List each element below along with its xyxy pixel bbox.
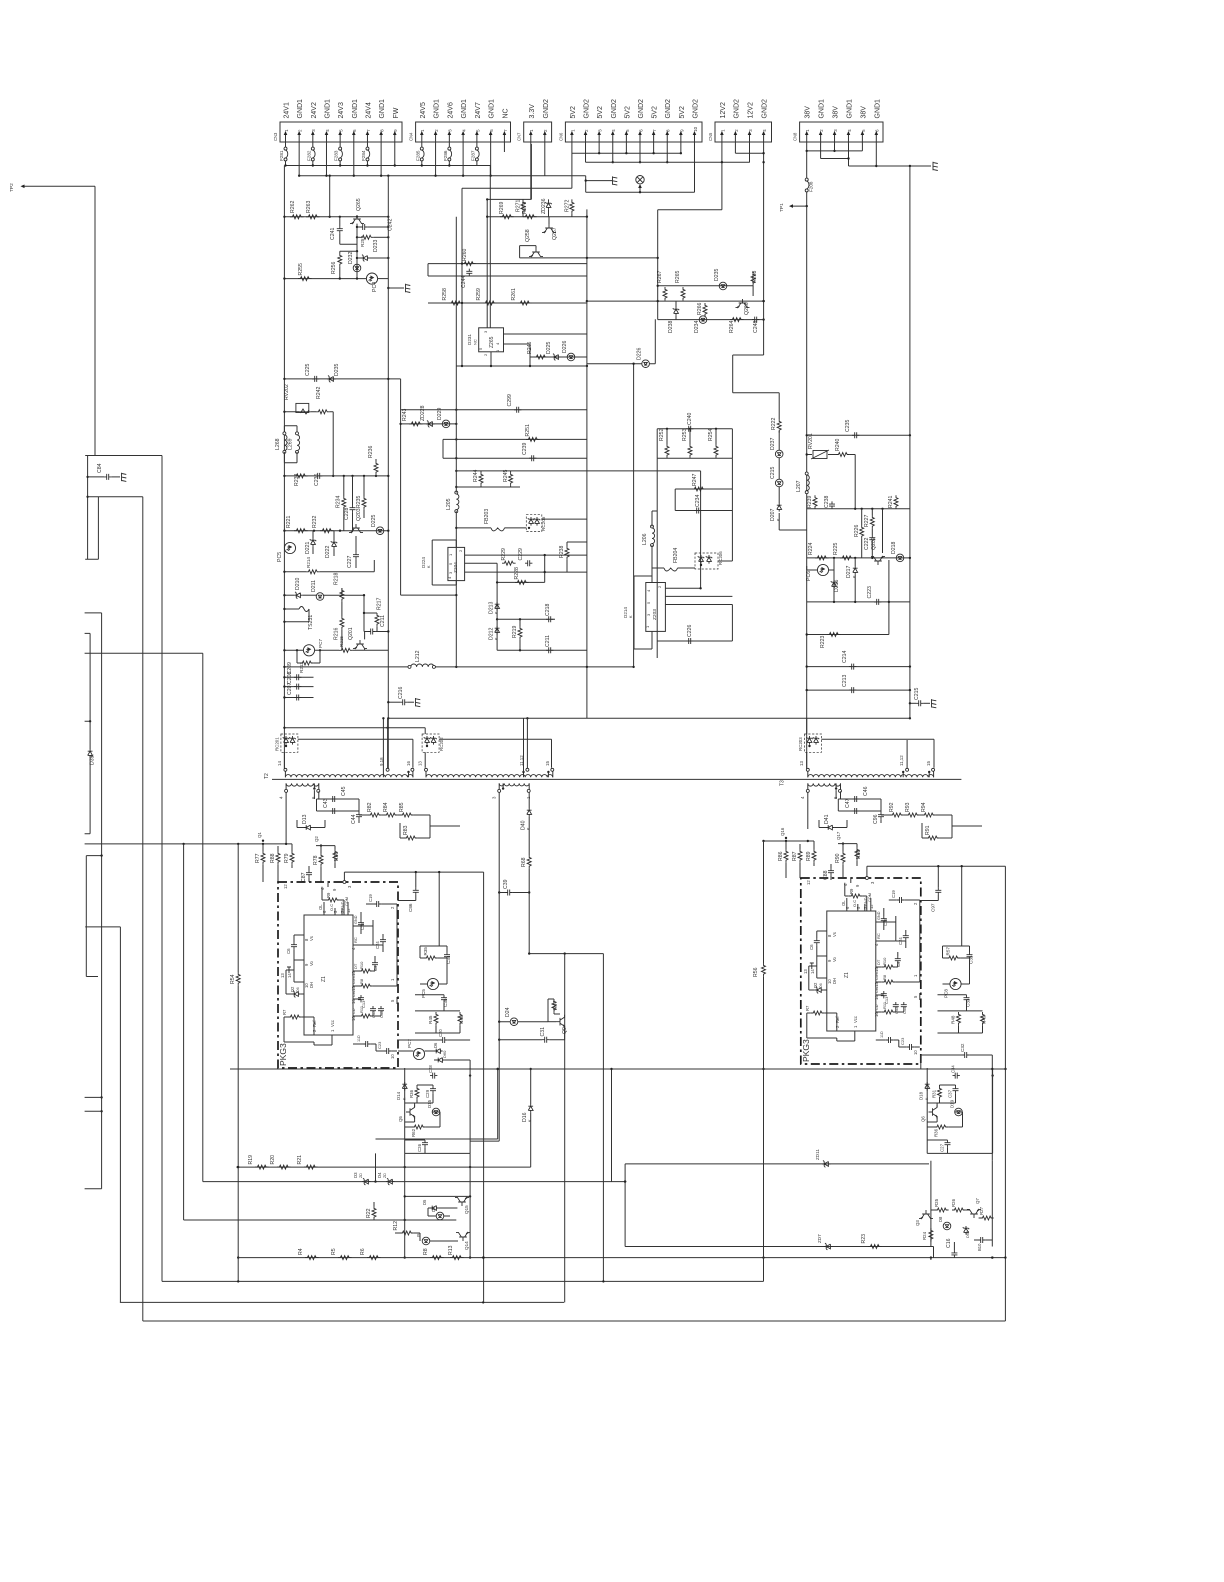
resistor R255: [284, 278, 366, 280]
fuse F281: [284, 147, 288, 161]
diode D13: [297, 820, 325, 828]
svg-text:R92: R92: [889, 802, 895, 812]
svg-text:Z204: Z204: [453, 562, 459, 573]
svg-text:L207: L207: [796, 480, 802, 492]
resistor R219: [518, 626, 522, 640]
transistor Q203: [349, 524, 363, 533]
svg-text:9: 9: [679, 129, 684, 132]
wire R233 line: [284, 475, 388, 477]
svg-text:1: 1: [390, 978, 395, 981]
svg-text:R247: R247: [692, 473, 698, 486]
svg-text:1: 1: [913, 974, 918, 977]
ground symbol CN8: [933, 162, 938, 171]
svg-text:D233: D233: [373, 239, 379, 252]
svg-text:R78: R78: [313, 855, 319, 865]
wire Z203 pins: [665, 573, 732, 605]
wire v120 drop: [85, 927, 120, 1303]
svg-text:13: 13: [803, 969, 808, 974]
svg-text:Q14: Q14: [464, 1241, 469, 1250]
svg-text:11D: 11D: [880, 1031, 884, 1038]
resistor R91: [926, 836, 940, 840]
svg-text:4: 4: [325, 129, 330, 132]
svg-text:D238: D238: [668, 320, 674, 333]
svg-text:D225: D225: [371, 514, 377, 527]
snubber RC203: [805, 734, 822, 752]
resistor R240: [836, 453, 850, 457]
photocoupler PC4: [366, 273, 377, 284]
svg-text:GND2: GND2: [584, 99, 591, 119]
svg-text:D18: D18: [919, 1091, 924, 1100]
svg-text:7: 7: [652, 129, 657, 132]
svg-text:PC6: PC6: [806, 571, 812, 581]
svg-text:24V7: 24V7: [475, 102, 482, 118]
resistor R270: [523, 215, 537, 219]
svg-text:D231: D231: [467, 334, 472, 345]
wire v564 drop: [564, 954, 566, 1303]
svg-text:PC4: PC4: [372, 282, 378, 292]
wire Q15 frame: [405, 1153, 470, 1257]
svg-text:2: 2: [657, 585, 662, 588]
svg-text:8: 8: [666, 129, 671, 132]
capacitor C226b: [686, 638, 693, 644]
cluster below PKG3 left: [405, 1075, 470, 1077]
capacitor C31: [499, 1039, 542, 1041]
transformer T2 winding C: [286, 783, 319, 786]
svg-text:D6: D6: [433, 1042, 438, 1048]
resistor R82: [368, 813, 382, 817]
wire Z204 left loop: [432, 540, 456, 585]
svg-text:D59: D59: [965, 1230, 970, 1238]
svg-text:Q203: Q203: [356, 508, 362, 521]
svg-text:10: 10: [913, 1050, 918, 1055]
svg-text:GND1: GND1: [434, 99, 441, 119]
svg-text:C238: C238: [824, 495, 830, 508]
svg-text:1: 1: [805, 129, 810, 132]
svg-text:L206: L206: [642, 533, 648, 545]
wire into PKG3 left: [263, 865, 321, 882]
svg-text:Vs: Vs: [832, 932, 837, 937]
svg-text:R235: R235: [356, 495, 362, 508]
svg-text:R233: R233: [294, 473, 300, 486]
diode D213: [495, 602, 500, 611]
svg-text:ZD228: ZD228: [420, 405, 426, 421]
photocoupler PC7b: [303, 645, 314, 656]
svg-text:C229: C229: [518, 548, 524, 561]
svg-text:GND2: GND2: [665, 99, 672, 119]
svg-text:B10: B10: [977, 1243, 982, 1251]
resistor R4: [305, 1256, 319, 1260]
capacitor C46: [852, 796, 859, 802]
svg-text:R245: R245: [503, 469, 509, 482]
svg-text:D5: D5: [422, 1199, 427, 1205]
snubber RC205: [526, 515, 542, 532]
svg-text:5: 5: [913, 995, 918, 998]
svg-text:Ref: Ref: [312, 1020, 317, 1027]
circled D10: [422, 1237, 430, 1245]
svg-text:2: 2: [390, 906, 395, 909]
svg-text:O.C: O.C: [329, 904, 334, 911]
svg-text:C32: C32: [960, 1043, 965, 1052]
capacitor C87: [306, 870, 312, 877]
svg-text:Vo: Vo: [309, 960, 314, 966]
svg-text:D19: D19: [950, 1099, 955, 1108]
resistor R227: [870, 515, 874, 529]
svg-text:CD: CD: [352, 1008, 356, 1014]
zener D225d: [552, 354, 561, 361]
resistor R93: [906, 813, 920, 817]
zener D221: [310, 538, 316, 547]
wire R244 line: [456, 471, 700, 573]
svg-text:6: 6: [352, 129, 357, 132]
resistor R253: [688, 444, 692, 458]
svg-text:C299: C299: [507, 394, 513, 407]
svg-text:4: 4: [847, 129, 852, 132]
diode D40: [527, 808, 532, 817]
transistor Q14: [456, 1232, 470, 1241]
capacitor C241: [339, 217, 341, 226]
wire CN6 5V2 and GND2 buses: [462, 144, 695, 192]
wire zener line 1181: [203, 1181, 625, 1183]
svg-text:K: K: [853, 575, 857, 578]
resistor R25: [931, 1209, 935, 1211]
svg-text:3: 3: [870, 881, 875, 884]
transformer T2 winding D: [499, 783, 529, 786]
svg-text:COM: COM: [868, 893, 872, 902]
circled D237: [775, 450, 783, 458]
resistor R223: [827, 633, 841, 637]
svg-text:R88: R88: [270, 853, 276, 863]
diode D39: [88, 749, 93, 758]
wire secondary leads R: [808, 790, 841, 829]
diode D61: [434, 1049, 443, 1054]
wire small stub: [930, 1258, 932, 1260]
connector CN5: [715, 122, 772, 142]
wire R4 line: [238, 1257, 1006, 1259]
svg-text:5V2: 5V2: [652, 106, 659, 119]
wire into PKG3 right: [786, 863, 843, 878]
capacitor C215c: [910, 702, 916, 704]
transistor Q7: [967, 1209, 981, 1218]
svg-text:R79: R79: [284, 853, 290, 863]
svg-text:R258: R258: [442, 288, 448, 301]
capacitor C43: [330, 808, 337, 814]
svg-text:Q258: Q258: [525, 229, 531, 242]
varistor RV201: [811, 450, 829, 459]
svg-text:NC: NC: [502, 108, 509, 118]
svg-text:C19: C19: [368, 894, 373, 902]
svg-text:5: 5: [861, 129, 866, 132]
svg-text:DH: DH: [832, 978, 837, 984]
svg-text:Css: Css: [352, 991, 356, 997]
resistor R78: [319, 853, 323, 867]
svg-text:5V2: 5V2: [570, 106, 577, 119]
zener ZD228: [426, 421, 435, 428]
capacitor C214: [849, 664, 856, 670]
capacitor C238: [829, 501, 835, 508]
wire Q1 line: [85, 843, 292, 845]
capacitor C242: [357, 226, 360, 228]
svg-text:6: 6: [311, 796, 316, 799]
svg-text:Css: Css: [875, 987, 879, 993]
svg-text:D41: D41: [824, 814, 830, 824]
wire long 1069 line: [230, 1068, 1006, 1070]
diode D217: [853, 566, 858, 575]
IC block PKG3 left: [278, 882, 398, 1068]
wire right-center buses: [587, 210, 764, 320]
svg-text:5: 5: [339, 129, 344, 132]
resistor R262: [290, 215, 304, 219]
svg-text:12: 12: [283, 884, 288, 889]
svg-text:15: 15: [874, 967, 879, 972]
circled D211: [316, 593, 324, 601]
svg-text:D224: D224: [421, 557, 426, 568]
svg-text:5V2: 5V2: [679, 106, 686, 119]
transistor Q16: [785, 837, 787, 839]
wire right rect: [625, 1164, 933, 1258]
svg-text:T2: T2: [264, 773, 270, 779]
svg-text:6: 6: [638, 129, 643, 132]
wire v992 drop: [921, 1055, 993, 1161]
svg-text:24V5: 24V5: [420, 102, 427, 118]
svg-text:2: 2: [734, 129, 739, 132]
IC Z265: [479, 328, 504, 352]
svg-text:R255: R255: [298, 263, 304, 276]
svg-text:L212: L212: [415, 650, 421, 662]
svg-text:D232: D232: [348, 251, 354, 264]
resistor R214: [284, 571, 306, 573]
photocoupler PC7: [413, 1048, 424, 1059]
svg-text:R87: R87: [792, 851, 798, 861]
svg-text:3: 3: [483, 330, 488, 333]
resistor R90: [841, 851, 845, 865]
svg-text:C211: C211: [545, 635, 551, 647]
svg-text:FB203: FB203: [484, 509, 490, 524]
svg-text:2: 2: [483, 353, 488, 356]
svg-text:6: 6: [489, 129, 494, 132]
resistor R246: [530, 356, 587, 358]
svg-text:D234: D234: [694, 320, 700, 333]
svg-text:R90: R90: [835, 853, 841, 863]
svg-text:Z203: Z203: [652, 609, 658, 620]
resistor R22: [372, 1206, 376, 1220]
svg-text:GND1: GND1: [352, 99, 359, 119]
svg-text:R232: R232: [312, 515, 318, 528]
svg-text:C239: C239: [522, 442, 528, 455]
capacitor C47: [852, 808, 859, 814]
svg-text:C43: C43: [323, 798, 329, 808]
svg-text:Q5: Q5: [398, 1116, 403, 1122]
svg-text:R57: R57: [946, 947, 951, 956]
zener D216: [831, 580, 837, 589]
capacitor C229: [525, 560, 532, 566]
svg-text:R4: R4: [298, 1248, 304, 1255]
capacitor C32: [921, 1054, 993, 1056]
capacitor C240: [686, 426, 693, 432]
svg-text:13: 13: [418, 761, 423, 766]
svg-text:R46: R46: [459, 1015, 464, 1024]
resistor R236: [374, 461, 378, 475]
wire v142 drop: [88, 497, 143, 1321]
svg-text:L269: L269: [288, 438, 294, 450]
svg-text:D214: D214: [623, 607, 628, 618]
svg-text:3.3V: 3.3V: [529, 104, 536, 119]
svg-text:C27: C27: [940, 1143, 945, 1152]
svg-text:R234: R234: [336, 495, 342, 508]
svg-text:4: 4: [495, 342, 500, 345]
svg-text:C46: C46: [863, 786, 869, 796]
resistor R5: [338, 1256, 352, 1260]
wire CN8 38V/GND1: [807, 144, 931, 769]
svg-text:C26: C26: [417, 1143, 422, 1152]
zener ZD4: [386, 1178, 395, 1185]
svg-text:RC205: RC205: [541, 516, 546, 531]
svg-text:R9: R9: [326, 892, 331, 898]
wire v238 drop: [237, 844, 239, 1282]
wire left bracket1: [85, 456, 98, 560]
capacitor C228: [350, 505, 356, 512]
svg-text:12: 12: [869, 904, 874, 909]
resistor R216: [340, 616, 344, 630]
wire left bracket3: [85, 633, 91, 833]
svg-text:1: 1: [853, 1025, 858, 1028]
wire left bracket4: [86, 856, 101, 977]
wire R82 chain: [359, 815, 460, 838]
svg-text:F287: F287: [470, 150, 475, 161]
svg-text:4: 4: [462, 129, 467, 132]
svg-text:R82: R82: [367, 802, 373, 812]
svg-text:C31: C31: [540, 1027, 546, 1037]
wire R92 chain: [881, 815, 982, 838]
svg-text:1: 1: [284, 129, 289, 132]
resistor R224: [815, 556, 829, 560]
svg-text:38V: 38V: [805, 106, 812, 119]
svg-text:C227: C227: [347, 555, 353, 568]
resistor R260: [462, 262, 476, 266]
svg-text:C213: C213: [842, 674, 848, 687]
wire R221 line: [284, 530, 388, 532]
capacitor C96: [878, 812, 884, 819]
svg-text:R257: R257: [360, 236, 365, 247]
zener D222: [331, 540, 337, 549]
svg-text:R246: R246: [527, 341, 533, 354]
wire v611 drop: [611, 1069, 613, 1182]
svg-text:R7: R7: [805, 1005, 810, 1011]
cluster left of PKG3-left side parts: [398, 895, 416, 901]
transformer T2 winding B: [426, 775, 553, 778]
ferrite FB203: [491, 528, 505, 531]
varistor RV202: [296, 403, 309, 412]
wire C235 line: [807, 434, 910, 436]
svg-text:R218: R218: [334, 572, 340, 585]
resistor R265: [681, 287, 685, 301]
capacitor C235: [852, 432, 859, 438]
svg-text:PC5: PC5: [277, 552, 283, 562]
resistor R242: [316, 410, 330, 414]
svg-text:F284: F284: [361, 150, 366, 161]
svg-text:14: 14: [277, 761, 282, 766]
svg-text:R224: R224: [808, 542, 814, 555]
svg-text:C88: C88: [823, 870, 829, 880]
wire D213 lines: [497, 619, 587, 650]
svg-text:1: 1: [570, 129, 575, 132]
resistor R19: [255, 1165, 269, 1169]
svg-text:R238: R238: [559, 545, 565, 558]
capacitor C234: [694, 508, 701, 514]
wire 24V fuse bus and GND1 bus: [286, 144, 586, 176]
svg-text:C241: C241: [330, 227, 336, 240]
svg-text:R219: R219: [512, 625, 518, 638]
svg-text:R268: R268: [752, 270, 758, 283]
svg-text:3: 3: [833, 129, 838, 132]
capacitor C244: [466, 269, 472, 276]
svg-text:DH: DH: [309, 982, 314, 988]
wire v101 drop: [85, 613, 102, 1189]
svg-text:1: 1: [720, 129, 725, 132]
svg-text:13: 13: [874, 982, 879, 987]
svg-text:D211: D211: [311, 580, 317, 592]
transformer T2 winding A: [285, 775, 413, 778]
svg-text:GND1: GND1: [819, 99, 826, 119]
svg-text:R83: R83: [403, 825, 409, 835]
transformer core line: [272, 778, 961, 780]
svg-text:R225: R225: [833, 542, 839, 555]
svg-text:C23: C23: [377, 1041, 382, 1049]
svg-text:D60: D60: [442, 1050, 447, 1058]
svg-text:K: K: [91, 754, 95, 757]
snubber RC202: [422, 734, 439, 752]
capacitor C84: [88, 476, 104, 478]
wire C299 line: [401, 379, 587, 595]
svg-text:9: 9: [393, 129, 398, 132]
capacitor C211: [546, 647, 553, 653]
svg-text:Z265: Z265: [489, 336, 495, 348]
wire secondary leads L: [286, 790, 319, 844]
wire loop 1321 and right edge: [143, 866, 1006, 1321]
svg-text:D226: D226: [637, 347, 643, 360]
svg-text:PKG3: PKG3: [278, 1043, 288, 1066]
wire left ticks: [85, 1097, 102, 1111]
lamp X symbol: [636, 176, 644, 184]
svg-text:D237: D237: [770, 437, 776, 450]
svg-text:COM: COM: [345, 897, 349, 906]
svg-text:24V4: 24V4: [365, 102, 372, 118]
svg-text:5: 5: [625, 129, 630, 132]
capacitor C32L: [398, 1039, 470, 1041]
resistor R241: [894, 495, 898, 509]
snubber RC201: [281, 734, 298, 752]
svg-text:2: 2: [298, 129, 303, 132]
svg-text:6: 6: [833, 796, 838, 799]
svg-text:12: 12: [806, 880, 811, 885]
svg-text:R221: R221: [286, 515, 292, 528]
resistor R263: [306, 215, 320, 219]
svg-text:R23: R23: [861, 1234, 867, 1244]
resistor R218: [340, 588, 344, 602]
fuse F282: [311, 147, 315, 161]
wire Z204 pin lines: [465, 555, 587, 650]
svg-text:R242: R242: [316, 386, 322, 399]
svg-text:Q3: Q3: [915, 1220, 920, 1226]
wire Z265 outputs: [456, 188, 587, 366]
fuse F208: [805, 178, 809, 192]
svg-text:R240: R240: [835, 438, 841, 451]
svg-text:C216: C216: [398, 686, 404, 699]
svg-text:D207: D207: [770, 508, 776, 521]
capacitor C213: [849, 687, 856, 693]
svg-text:F281: F281: [279, 150, 284, 161]
svg-text:D8: D8: [938, 1216, 943, 1222]
svg-text:D6: D6: [819, 983, 823, 988]
